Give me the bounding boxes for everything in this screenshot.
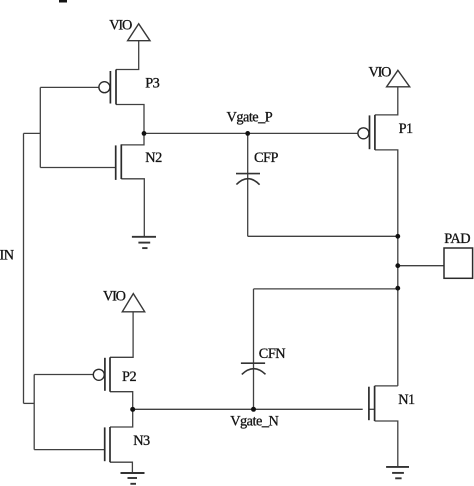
svg-text:VIO: VIO bbox=[369, 64, 392, 80]
svg-text:P3: P3 bbox=[145, 76, 159, 92]
svg-text:N2: N2 bbox=[145, 150, 162, 166]
svg-text:P1: P1 bbox=[399, 121, 413, 137]
svg-text:Vgate_P: Vgate_P bbox=[227, 110, 273, 126]
svg-text:Vgate_N: Vgate_N bbox=[230, 414, 278, 430]
svg-text:P2: P2 bbox=[122, 369, 136, 385]
svg-text:IN: IN bbox=[0, 247, 14, 263]
svg-text:VIO: VIO bbox=[103, 289, 126, 305]
svg-text:PAD: PAD bbox=[444, 231, 470, 247]
svg-text:N1: N1 bbox=[398, 392, 415, 408]
svg-text:CFN: CFN bbox=[259, 346, 285, 362]
svg-text:N3: N3 bbox=[133, 433, 150, 449]
svg-text:VIO: VIO bbox=[109, 18, 132, 34]
svg-text:CFP: CFP bbox=[254, 150, 278, 166]
